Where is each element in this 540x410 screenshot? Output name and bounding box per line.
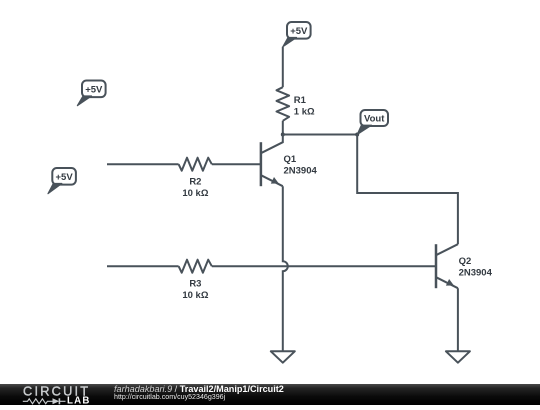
power flag +5V (top, net V1) [283, 22, 311, 47]
wire base row to R2 [107, 163, 179, 165]
Q2 collector lead [436, 244, 458, 255]
wire Q1 emitter down with hop over lower row [283, 186, 288, 351]
svg-text:10 kΩ: 10 kΩ [182, 290, 208, 301]
wire +5V flag to R1 [282, 47, 284, 87]
resistor R2 [179, 158, 212, 199]
wire lower row to R3 [107, 265, 179, 267]
wire Q2 emitter to ground [457, 288, 459, 351]
transistor Q1 [261, 135, 318, 187]
node A (collector of Q1) [281, 133, 285, 137]
Q2 base bar [435, 244, 438, 288]
net flag Vout [357, 110, 388, 135]
node Vout junction [355, 133, 359, 137]
CircuitLab logo [0, 384, 100, 405]
Q1 base bar [260, 142, 263, 186]
Q1 emitter lead [261, 175, 283, 186]
svg-text:R3: R3 [189, 278, 201, 289]
wire node A to Vout node [283, 134, 357, 136]
wire R3 to Q2 base [212, 265, 436, 267]
svg-text:Q1: Q1 [284, 154, 297, 165]
transistor Q2 [436, 244, 493, 288]
Q1 emitter arrow [271, 177, 279, 184]
wire R2 to Q1 base [212, 163, 261, 165]
Q1 collector lead [261, 135, 283, 154]
svg-text:Vout: Vout [364, 114, 385, 125]
Q2 emitter lead [436, 277, 458, 288]
svg-text:LAB: LAB [67, 396, 91, 405]
svg-text:2N3904: 2N3904 [284, 165, 318, 176]
power flag +5V (left lower, unconnected) [48, 168, 76, 194]
resistor R3 [179, 260, 212, 301]
wire R1 to node A [282, 121, 284, 135]
footer bar [0, 384, 540, 405]
svg-text:10 kΩ: 10 kΩ [182, 188, 208, 199]
svg-text:Q2: Q2 [459, 256, 472, 267]
power flag +5V (left upper, unconnected) [77, 81, 105, 106]
ground (Q1 emitter) [271, 351, 295, 362]
svg-text:R1: R1 [294, 95, 307, 106]
Q2 emitter arrow [446, 279, 454, 286]
svg-text:+5V: +5V [85, 85, 103, 96]
wire Vout to Q2 collector [357, 135, 458, 245]
svg-text:2N3904: 2N3904 [459, 267, 493, 278]
footer text [114, 385, 284, 394]
svg-text:1 kΩ: 1 kΩ [294, 107, 315, 118]
resistor R1 [277, 87, 316, 121]
svg-text:R2: R2 [189, 176, 201, 187]
svg-text:+5V: +5V [290, 26, 308, 37]
ground (Q2 emitter) [446, 351, 470, 362]
svg-text:+5V: +5V [56, 172, 74, 183]
